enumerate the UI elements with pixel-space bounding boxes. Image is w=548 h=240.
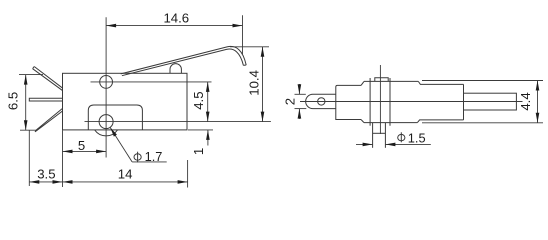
arc bulge under mounting hole <box>95 130 118 136</box>
horizontal centerline through pivot hole <box>91 81 212 83</box>
terminal tab (rounded left end) <box>306 94 336 108</box>
svg-text:1: 1 <box>191 148 206 155</box>
pivot hole (top) <box>100 76 113 89</box>
hump bottom edge <box>364 122 417 124</box>
phi symbol of φ1.7 <box>134 152 141 163</box>
svg-text:10.4: 10.4 <box>246 70 261 96</box>
bottom chamfer left <box>361 120 364 123</box>
svg-text:6.5: 6.5 <box>6 92 21 110</box>
mounting hole (bottom, φ1.7) <box>99 115 113 129</box>
svg-text:4.5: 4.5 <box>191 91 206 109</box>
inner contact plate with rounded top corners <box>88 105 142 130</box>
vertical centerline through holes <box>105 17 107 157</box>
svg-text:14.6: 14.6 <box>163 10 189 25</box>
outer top line (4.4 extension) <box>422 80 543 82</box>
plunger shaft <box>464 93 517 110</box>
bracket (metal clip) verticals <box>369 78 371 126</box>
switch body outline <box>63 73 188 130</box>
svg-text:14: 14 <box>118 167 133 182</box>
terminal middle (flat) <box>29 98 62 101</box>
terminal bottom (angled) <box>35 108 63 132</box>
lever arm (two parallel lines with bend at tip) <box>122 49 243 76</box>
bottom chamfer right <box>417 120 463 123</box>
hump top edge <box>364 80 418 82</box>
outer bottom line (4.4 extension) <box>422 122 543 124</box>
vertical centerline through bracket <box>379 65 381 134</box>
svg-text:1.7: 1.7 <box>145 149 163 164</box>
horizontal centerline through mounting hole <box>85 121 271 123</box>
svg-text:2: 2 <box>283 98 298 105</box>
svg-text:1.5: 1.5 <box>408 130 426 145</box>
svg-text:4.4: 4.4 <box>518 92 533 110</box>
svg-text:5: 5 <box>78 138 85 153</box>
top chamfer right <box>418 81 463 84</box>
bottom tab lower edge <box>373 132 386 134</box>
top chamfer left <box>361 81 364 85</box>
plunger dome on body top <box>170 64 181 74</box>
lever tip end cap <box>243 64 246 66</box>
svg-text:3.5: 3.5 <box>37 166 55 181</box>
left body block <box>336 85 361 119</box>
right block face <box>463 84 465 120</box>
phi symbol of φ1.5 <box>398 132 405 142</box>
button on top of bracket <box>375 78 388 82</box>
bottom tab sides (φ1.5) with extension lines <box>372 123 374 148</box>
terminal top (angled) <box>33 67 63 91</box>
horizontal centerline <box>300 101 523 103</box>
tab hole <box>318 98 325 105</box>
